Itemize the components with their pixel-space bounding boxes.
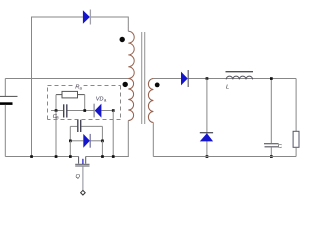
diode freewheel [200,133,213,142]
wire snubber left edge [69,126,71,140]
label Ca [53,114,60,120]
svg-text:Q: Q [76,174,81,180]
node bottom rail x102 [101,155,104,158]
node cap top [270,77,273,80]
wire snubber diode row [70,140,83,142]
node freewheel bottom [206,155,209,158]
label VDa [96,97,107,103]
wire clamp row [51,110,63,112]
resistor load [293,79,299,157]
dashed box clamp network [48,86,121,120]
diode VD1 reset (top) [83,10,91,25]
transistor Q (power MOSFET switch) [75,157,89,167]
node dot primary upper (polarity) [120,37,125,42]
node clamp out [112,109,115,112]
svg-text:L: L [226,84,229,90]
wire mid rail (battery + to primary) [5,78,128,80]
node rectifier out [206,77,209,80]
node bottom rail x56 [55,155,58,158]
battery E [0,79,18,157]
wire bottom rail right segment [86,156,129,158]
secondary winding [148,79,153,123]
node bottom rail x113 [112,155,115,158]
node snubber left [69,140,72,143]
capacitor C output [270,79,272,144]
wire secondary top [153,78,181,80]
node dot secondary (polarity) [155,83,160,88]
mosfet body stub [82,159,84,164]
wire clamp column (x=56 to bottom rail) [55,111,57,157]
node dot primary lower (polarity) [123,82,128,87]
primary winding upper (reset) [128,31,134,78]
wire gate lead [82,166,84,191]
capacitor snubber [78,120,81,132]
wire snubber right edge [101,126,103,140]
resistor Ra [56,91,85,98]
wire bottom rail left segment [5,156,78,158]
inductor L [226,72,254,80]
node clamp left [55,109,58,112]
node junction reset/bottom [30,155,33,158]
svg-text:VD: VD [96,97,104,103]
wire primary bottom drop [127,121,129,157]
wire secondary bottom drop [152,123,154,157]
terminal gate (diamond) [81,190,86,195]
label Ra [75,83,84,90]
wire snubber left drop [69,141,71,157]
wire clamp out column (x=113.2 to bottom rail) [112,111,114,157]
diode snubber [83,134,90,148]
wire left column (reset return) [31,17,33,157]
diode VD rectifier [181,70,188,87]
wire snubber right drop [101,141,103,157]
wire freewheel column [206,79,208,157]
wire clamp left vertical [55,95,57,111]
wire snubber top edge [70,125,77,127]
node clamp right [83,109,86,112]
svg-text:C: C [278,144,282,150]
wire secondary bottom rail [153,156,296,158]
capacitor Ca [64,104,67,117]
node bottom rail x70 [69,155,72,158]
wire top reset loop [32,17,129,79]
node cap bottom [270,155,273,158]
diode VDa [94,104,101,118]
core [141,32,143,124]
node snubber right [101,140,104,143]
wire clamp right vertical [84,95,86,111]
primary winding lower (main) [128,79,133,121]
